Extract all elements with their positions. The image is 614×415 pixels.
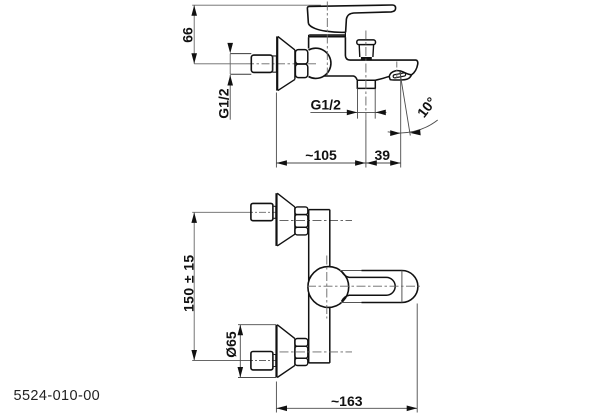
pill chord line	[401, 271, 403, 303]
union body (rounded block)	[251, 55, 272, 72]
wall pipe G1/2 thread (thin outline)	[230, 54, 251, 75]
G1/2 left label arrow down	[227, 43, 233, 54]
dimension 66 arrow down	[191, 53, 197, 64]
body right edge with corner into spout housing	[345, 37, 350, 60]
dim ~163 line	[276, 407, 417, 409]
svg-text:~105: ~105	[305, 147, 337, 163]
10 deg slanted line	[400, 72, 411, 136]
pipe axis centerline	[194, 63, 246, 65]
G1/2 middle leader line	[310, 111, 386, 113]
top wall thread block	[251, 203, 273, 220]
shower outlet extension lines	[358, 88, 376, 118]
top hex nut (3 facets)	[295, 207, 308, 215]
svg-text:10°: 10°	[414, 94, 440, 121]
extension line aerator axis	[400, 72, 402, 168]
G1/2 left label line + arrow up	[229, 75, 231, 120]
bottom wall thread block	[251, 352, 273, 370]
dim dia65 extension lines	[238, 325, 276, 378]
escutcheon cone (side view)	[276, 36, 278, 90]
dimension 66 extension line (top, to handle)	[192, 4, 321, 6]
G1/2 middle arrows	[347, 110, 358, 116]
bottom connection pipe axis centerline	[192, 360, 246, 362]
knob/outlet vertical centerline	[365, 31, 367, 121]
handle lever	[307, 5, 395, 32]
body vertical centerline	[326, 2, 328, 76]
top escutcheon cone	[275, 193, 277, 246]
dim 39 arrows	[366, 160, 377, 166]
svg-text:G1/2: G1/2	[215, 88, 231, 119]
diverter knob base	[361, 57, 372, 60]
dim ~163 extension lines	[276, 304, 417, 413]
aerator slot	[393, 73, 406, 79]
10 deg arc	[388, 120, 438, 133]
aerator bump bottom	[389, 75, 411, 80]
10 deg arrows	[390, 130, 400, 136]
plan horizontal centerline	[307, 285, 422, 287]
bottom escutcheon cone	[275, 325, 277, 378]
underside curve right of collar	[375, 77, 389, 81]
plan vertical centerline	[326, 256, 328, 319]
diverter knob cap	[357, 40, 376, 45]
cartridge circle	[308, 267, 349, 308]
bottom hex nut (3 facets)	[295, 339, 308, 347]
bottom neck	[273, 355, 276, 367]
extension line wall face	[275, 93, 277, 168]
svg-text:66: 66	[180, 27, 196, 43]
hex nut (side view, two facets)	[295, 50, 307, 64]
spout housing bottom edge	[324, 76, 357, 80]
svg-text:39: 39	[375, 147, 391, 163]
bottom inlet axis centerline	[280, 351, 353, 353]
top connection pipe axis centerline	[192, 211, 246, 213]
dim dia65 line	[239, 325, 241, 378]
svg-text:Ø65: Ø65	[223, 331, 239, 358]
handle neck bottom curve	[308, 24, 345, 33]
cartridge collar ring	[309, 34, 345, 36]
pill (spout plan silhouette)	[340, 271, 362, 303]
top inlet axis centerline	[280, 220, 353, 222]
svg-text:5524-010-00: 5524-010-00	[14, 388, 101, 404]
dimension 66 arrow up	[191, 5, 197, 16]
dim ~105/39 baseline	[276, 162, 400, 164]
union neck	[273, 56, 277, 72]
svg-text:G1/2: G1/2	[311, 97, 342, 113]
svg-text:~163: ~163	[331, 393, 363, 409]
dimension 66 line	[193, 5, 195, 64]
aerator axis centerline	[396, 62, 398, 79]
svg-text:150 ± 15: 150 ± 15	[181, 254, 197, 312]
body left edge	[308, 37, 310, 48]
slot (handle plan)	[342, 271, 396, 301]
dim 150 +/- 15 line	[193, 212, 195, 360]
extension line knob axis (below centerline)	[365, 120, 367, 168]
body dome (ball joint)	[309, 48, 331, 78]
dim ~105 arrows	[276, 160, 287, 166]
body bar	[309, 209, 330, 211]
aerator bump top	[389, 71, 411, 77]
diverter knob body	[359, 45, 373, 57]
spout housing top edge and right tip	[350, 60, 418, 75]
top neck	[273, 206, 276, 218]
shower outlet collar	[357, 80, 375, 88]
dim ~163 arrows	[277, 406, 288, 412]
